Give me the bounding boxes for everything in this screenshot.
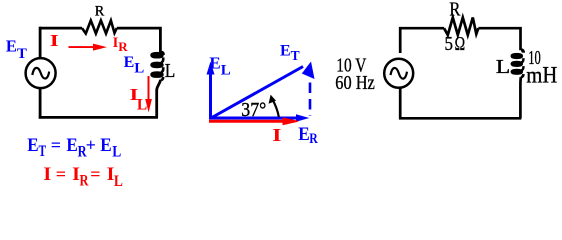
svg-text:L: L bbox=[114, 173, 123, 190]
equation ET = ER + EL (blue) bbox=[27, 135, 121, 161]
wire right circuit top-right segment bbox=[478, 28, 520, 50]
phasor ER vector (blue horizontal) bbox=[209, 114, 309, 121]
svg-text:ET: ET bbox=[6, 37, 27, 62]
svg-text:mH: mH bbox=[526, 63, 557, 88]
svg-text:IR: IR bbox=[113, 35, 129, 54]
svg-text:R: R bbox=[80, 172, 90, 189]
wire right circuit bottom segment bbox=[399, 117, 521, 120]
svg-text:L: L bbox=[496, 56, 511, 78]
phasor ET vector (blue diagonal) bbox=[211, 62, 315, 119]
inductor L (right circuit) bbox=[512, 50, 523, 77]
svg-text:I: I bbox=[43, 165, 51, 185]
ac source 10V 60Hz (right circuit) bbox=[384, 59, 413, 88]
wire right circuit left-lower segment bbox=[399, 89, 402, 120]
svg-text:R: R bbox=[309, 131, 318, 147]
phasor dashed projection line bbox=[309, 66, 312, 116]
svg-text:L: L bbox=[165, 60, 176, 82]
resistor R (left circuit) bbox=[82, 21, 117, 34]
resistor R (right circuit) bbox=[444, 18, 478, 36]
svg-text:E: E bbox=[27, 136, 38, 156]
svg-text:EL: EL bbox=[209, 54, 230, 79]
phasor I vector (red horizontal) bbox=[209, 118, 298, 125]
svg-text:ET: ET bbox=[280, 42, 300, 63]
svg-text:L: L bbox=[112, 144, 121, 161]
svg-text:E: E bbox=[66, 136, 77, 156]
wire left circuit top-right segment bbox=[117, 28, 161, 53]
svg-text:R: R bbox=[95, 4, 105, 20]
wire left circuit top-left segment bbox=[40, 27, 82, 30]
wire right circuit right-bottom segment bbox=[519, 77, 522, 118]
wire left circuit left-lower segment bbox=[39, 89, 42, 119]
wire left circuit bottom segment bbox=[39, 116, 158, 119]
svg-text:R: R bbox=[449, 0, 460, 21]
inductor L (left circuit) bbox=[152, 52, 163, 80]
equation I = IR = IL (red) bbox=[43, 164, 123, 190]
wire right circuit top-left segment bbox=[400, 28, 444, 53]
svg-text:T: T bbox=[39, 143, 47, 160]
phasor EL vector (blue vertical) bbox=[207, 62, 215, 120]
wire left circuit right-bottom segment bbox=[157, 80, 161, 118]
svg-text:I: I bbox=[50, 31, 59, 50]
wire left circuit left-upper segment bbox=[39, 27, 42, 58]
current arrow IL (red, down) bbox=[145, 76, 152, 113]
svg-text:37°: 37° bbox=[241, 99, 266, 121]
svg-text:=: = bbox=[90, 164, 100, 184]
svg-text:+: + bbox=[86, 135, 96, 155]
svg-text:EL: EL bbox=[124, 54, 145, 76]
svg-text:E: E bbox=[100, 136, 111, 156]
svg-text:5: 5 bbox=[445, 34, 454, 55]
angle arc 37 degrees bbox=[269, 95, 279, 117]
svg-text:60 Hz: 60 Hz bbox=[335, 72, 375, 94]
svg-text:E: E bbox=[298, 124, 310, 145]
svg-text:=: = bbox=[56, 164, 66, 184]
current arrow I (red) bbox=[69, 44, 108, 51]
svg-text:=: = bbox=[51, 135, 61, 155]
svg-text:Ω: Ω bbox=[455, 34, 466, 55]
ac source ET (left circuit) bbox=[26, 58, 56, 88]
svg-text:I: I bbox=[272, 125, 281, 145]
